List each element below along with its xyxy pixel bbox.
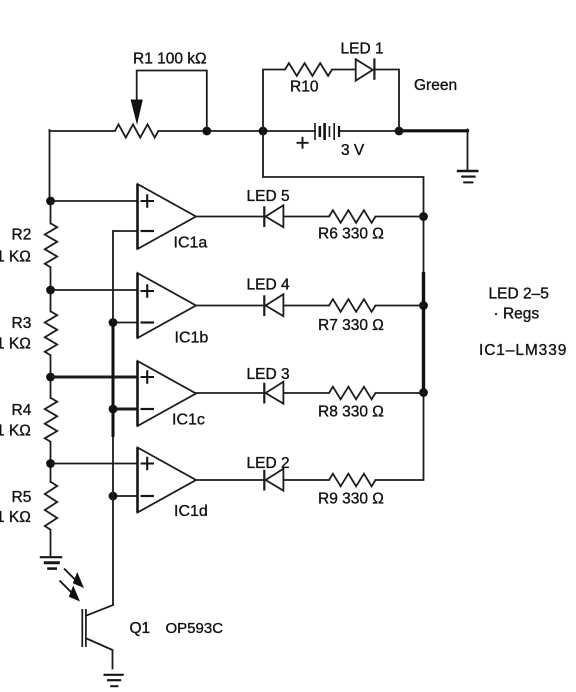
wire: right bus (bold)	[423, 217, 425, 273]
op-amp IC1a	[138, 184, 208, 252]
wire: op-amp output to LED 4	[196, 305, 264, 307]
svg-text:LED 1: LED 1	[341, 41, 384, 58]
svg-text:R1 100 kΩ: R1 100 kΩ	[133, 51, 207, 68]
node: sense bus at IC1d - input	[109, 492, 118, 501]
wire: LED 3 to R8	[283, 392, 329, 394]
ground (below R5)	[40, 557, 62, 568]
svg-text:LED 5: LED 5	[247, 188, 290, 205]
svg-text:Green: Green	[414, 77, 457, 94]
svg-text:IC1b: IC1b	[175, 330, 209, 347]
svg-text:R2: R2	[12, 227, 32, 244]
resistor R5 1K	[0, 464, 57, 556]
svg-text:R6 330 Ω: R6 330 Ω	[318, 226, 384, 243]
wire: LED 5 to R6	[283, 216, 329, 218]
node: R6 bus junction	[419, 212, 428, 221]
wire: IC1c - input from sense bus	[113, 408, 138, 411]
resistor R3 1K	[0, 290, 57, 377]
wire: IC1d + input from divider	[51, 463, 138, 465]
resistor R9 330	[329, 474, 376, 487]
wire: R7 to bus	[376, 305, 424, 307]
transistor Q1 phototransistor	[82, 605, 113, 669]
svg-text:R10: R10	[290, 79, 319, 96]
svg-text:IC1–LM339: IC1–LM339	[479, 342, 567, 359]
wire: LED1 branch left leg	[263, 70, 285, 132]
resistor R7 330	[329, 299, 376, 312]
resistor R4 1K	[0, 377, 57, 464]
wire: op-amp output to LED 3	[196, 392, 264, 394]
svg-text:· Regs: · Regs	[494, 306, 540, 323]
wire: sense bus bold middle	[112, 323, 115, 438]
svg-text:R5: R5	[12, 489, 32, 506]
svg-text:OP593C: OP593C	[166, 620, 224, 637]
node: battery-left junction	[259, 127, 268, 136]
svg-text:1 KΩ: 1 KΩ	[0, 249, 31, 266]
wire: IC1b - input from sense bus	[113, 322, 138, 324]
resistor R6 330	[329, 210, 376, 223]
svg-text:R9 330 Ω: R9 330 Ω	[318, 491, 384, 508]
wire: LED 2 to R9	[283, 479, 329, 481]
resistor R2 1K	[0, 201, 57, 290]
svg-text:R8 330 Ω: R8 330 Ω	[318, 404, 384, 421]
wire: IC1c + input from divider	[51, 376, 138, 379]
LED 4	[264, 294, 283, 316]
wire: op-amp output to LED 2	[196, 479, 264, 481]
node: wiper junction on rail	[202, 127, 211, 136]
svg-text:IC1d: IC1d	[174, 503, 208, 520]
wire: right bus lower	[376, 393, 424, 481]
svg-text:Q1: Q1	[130, 620, 151, 637]
resistor R10	[285, 63, 332, 76]
op-amp IC1d	[138, 448, 208, 521]
node: sense bus at IC1c - input	[109, 405, 118, 414]
node: divider tap	[46, 286, 55, 295]
svg-text:IC1c: IC1c	[172, 412, 205, 429]
svg-text:LED 3: LED 3	[247, 366, 290, 383]
svg-text:IC1a: IC1a	[174, 235, 208, 252]
LED 3	[264, 382, 283, 404]
LED 5	[264, 205, 283, 227]
wire: left rail	[49, 130, 51, 201]
svg-text:R4: R4	[12, 402, 32, 419]
op-amp IC1c	[138, 361, 205, 429]
node: R8 bus junction	[419, 388, 428, 397]
wire: bold rail to ground	[399, 129, 468, 132]
wire: R6 to bus	[376, 216, 424, 218]
svg-text:R3: R3	[12, 315, 32, 332]
node: divider tap	[46, 459, 55, 468]
ground (supply return)	[457, 171, 479, 182]
resistor R8 330	[329, 387, 376, 400]
wire: IC1a + input from divider	[51, 200, 138, 202]
LED1 (green)	[356, 58, 375, 80]
wire: LED 4 to R7	[283, 305, 329, 307]
node: sense bus at IC1b - input	[109, 318, 118, 327]
ground (Q1 emitter)	[104, 675, 124, 686]
light arrows into Q1	[60, 569, 85, 602]
op-amp IC1b	[138, 273, 209, 347]
wire: rail to right collector bus	[263, 131, 424, 217]
wire: IC1d - input from sense bus	[113, 495, 138, 497]
svg-text:1 KΩ: 1 KΩ	[0, 509, 31, 526]
svg-text:LED 2–5: LED 2–5	[489, 286, 549, 303]
svg-text:LED 2: LED 2	[247, 455, 290, 472]
svg-text:R7 330 Ω: R7 330 Ω	[318, 317, 384, 334]
wire: R10 to LED1	[332, 69, 356, 71]
wire: sense bus (wiper/phototransistor)	[112, 231, 114, 605]
svg-text:1 KΩ: 1 KΩ	[0, 423, 31, 440]
svg-text:3 V: 3 V	[341, 142, 365, 159]
wire: IC1a - input from sense bus	[113, 230, 138, 232]
node: divider tap	[46, 373, 55, 382]
svg-text:1 KΩ: 1 KΩ	[0, 336, 31, 353]
wire: op-amp output to LED 5	[196, 216, 264, 218]
resistor R1 100k potentiometer	[115, 71, 207, 138]
svg-text:LED 4: LED 4	[247, 277, 290, 294]
node: LED1 return junction	[395, 127, 404, 136]
wire: main supply rail	[50, 130, 400, 132]
battery B1 3V	[297, 123, 365, 159]
LED 2	[264, 469, 283, 491]
node: divider tap	[46, 197, 55, 206]
wire: R8 to bus	[376, 392, 424, 394]
wire: IC1b + input from divider	[51, 289, 138, 291]
wire: LED1 to rail	[374, 70, 399, 132]
node: R7 bus junction	[419, 301, 428, 310]
